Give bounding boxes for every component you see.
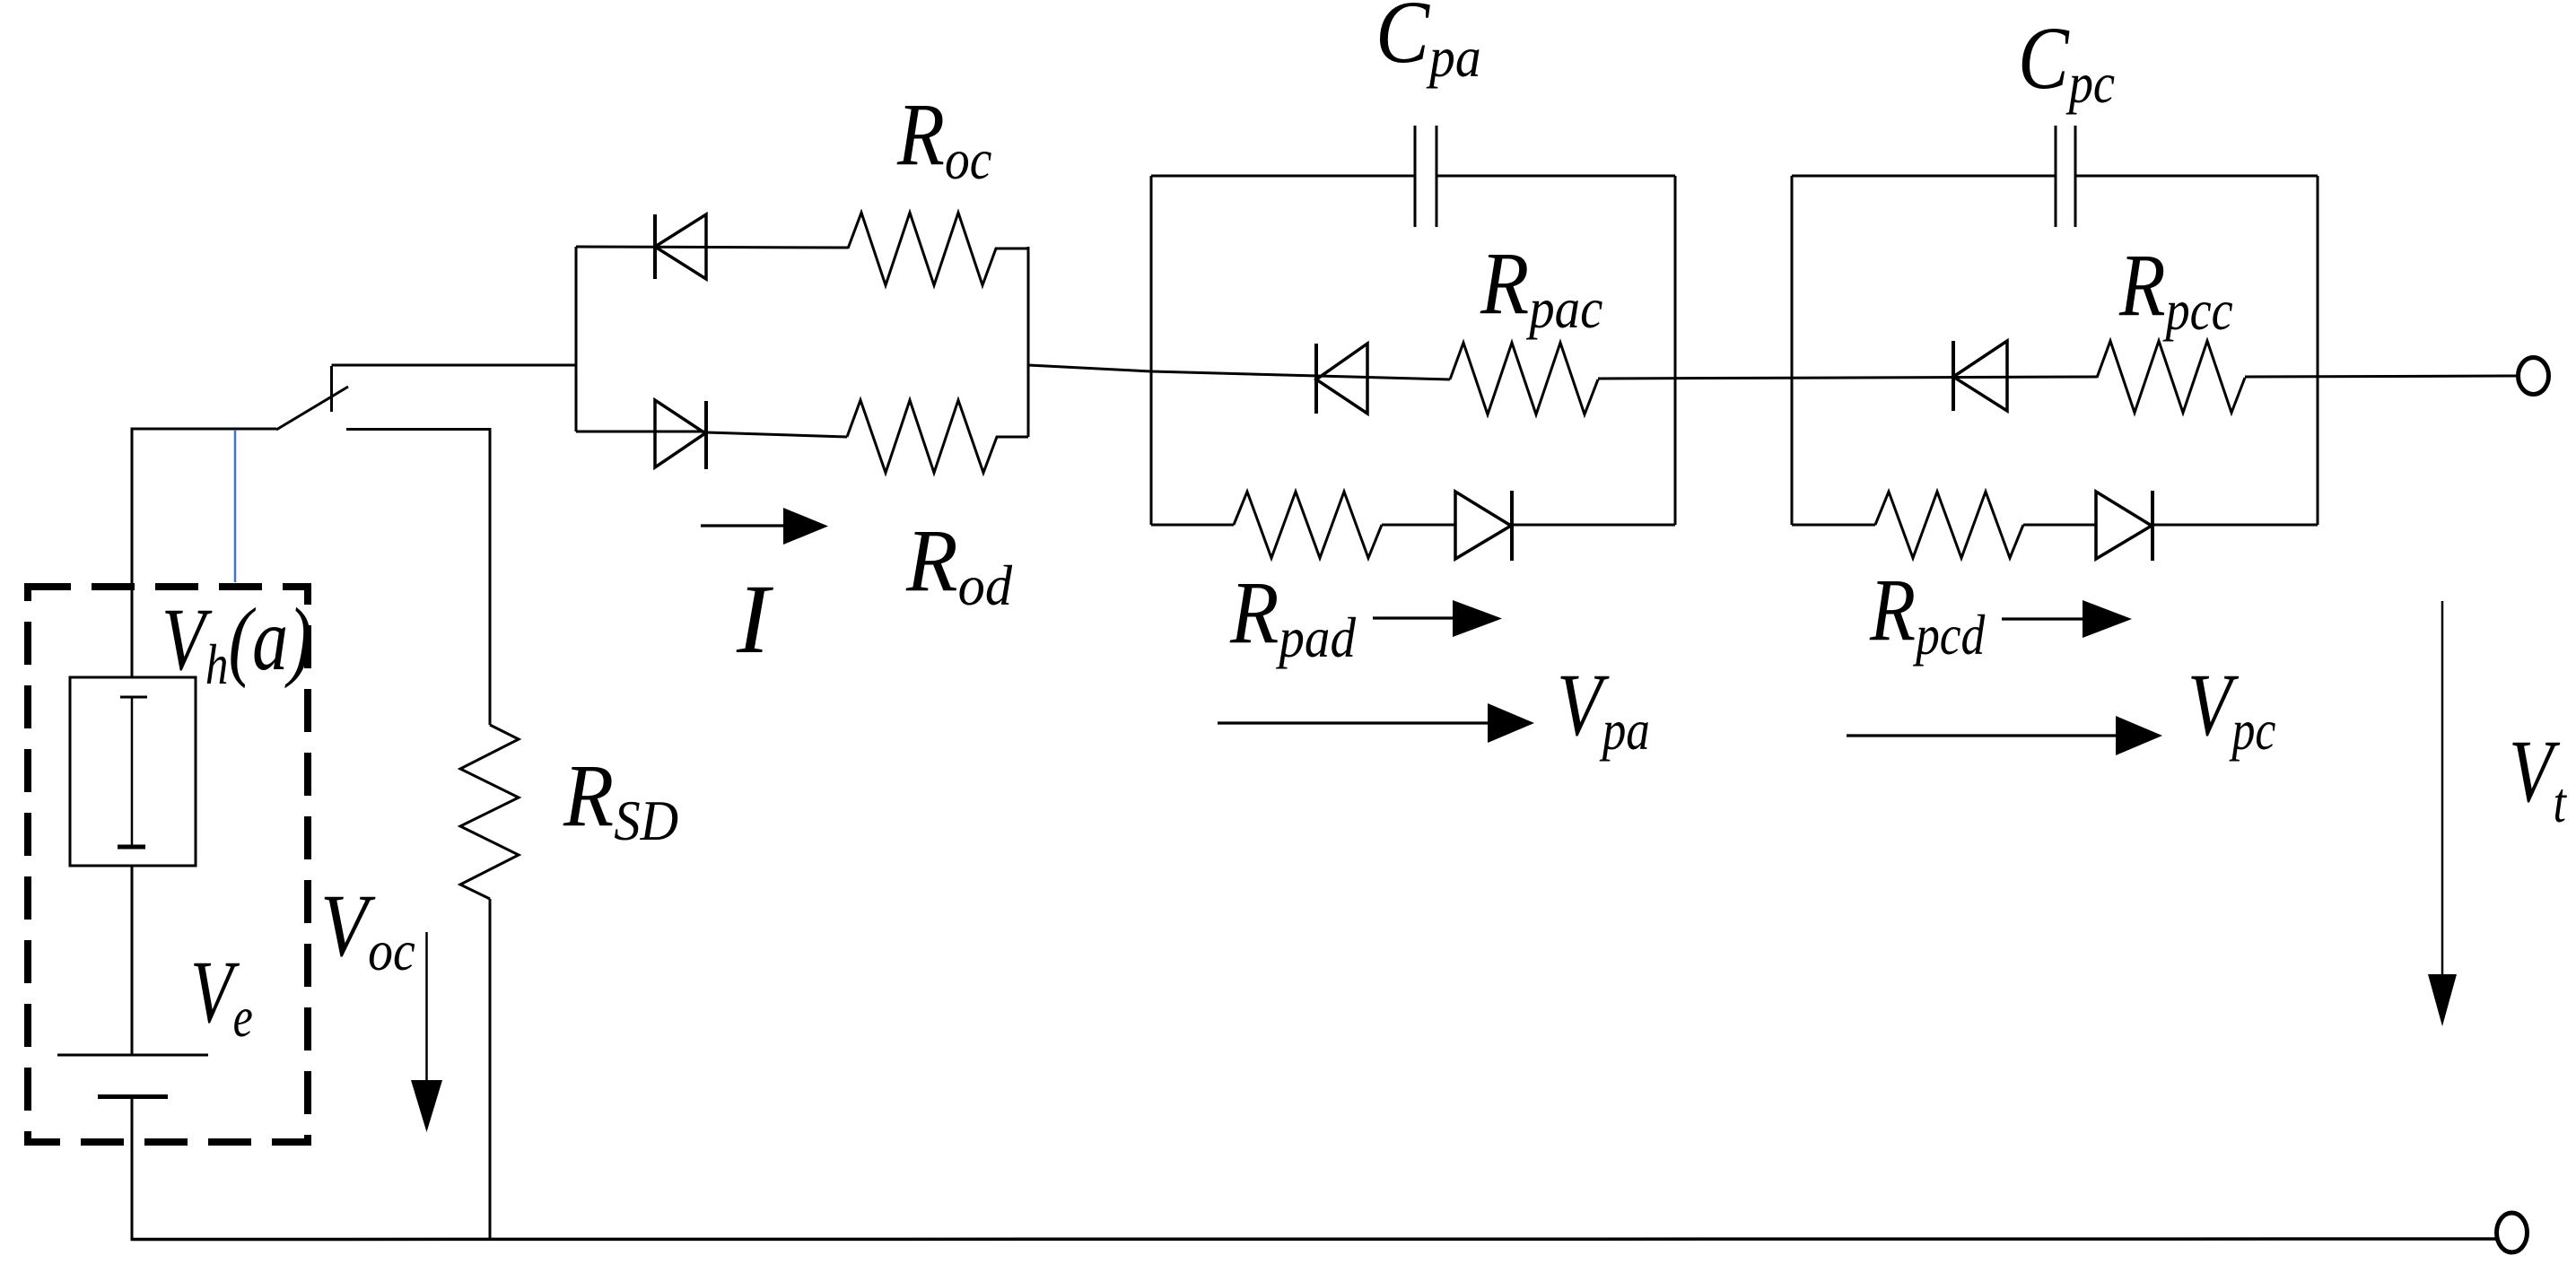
arrow V_oc (411, 932, 442, 1132)
resistor R_pcc (2097, 341, 2245, 413)
resistor R_od (847, 400, 1028, 473)
resistor R_SD (460, 725, 519, 899)
Cpc box edges (1792, 176, 2318, 525)
wire switch to RSD (346, 430, 490, 726)
wire Cpc to terminal (2245, 376, 2518, 377)
wire Rod diode to resistor (706, 432, 847, 437)
wire battery inner upper (131, 866, 134, 1055)
arrow V_pc (1847, 716, 2162, 755)
wire between boxes (1598, 377, 2097, 379)
terminal bottom right (2497, 1213, 2528, 1252)
arrow I (701, 508, 828, 545)
capacitor C_pa plates (1415, 126, 1436, 227)
arrow V_pa (1218, 703, 1534, 743)
svg-text:Vh(a): Vh(a) (162, 589, 312, 697)
dashed battery box (28, 587, 308, 1142)
node Roc box right edge (1027, 247, 1030, 437)
wire Roc branch left (576, 247, 848, 248)
diode D6 (Rpcd branch) (2096, 491, 2152, 561)
arrow V_t (2428, 601, 2457, 1026)
battery Ve short plate (98, 1094, 168, 1099)
wire Cpa bottom right (1512, 524, 1675, 527)
terminal top right (2519, 358, 2549, 395)
diode D2 (Rod branch) (655, 400, 706, 469)
wire RSD to bottom (489, 899, 492, 1241)
capacitor C_pc plates (2056, 126, 2075, 227)
switch S1 lever (276, 387, 348, 430)
wire battery top (132, 429, 276, 677)
arrow Rpcd (2002, 600, 2132, 638)
hysteresis source U1 box (70, 677, 196, 866)
node Roc box left edge (575, 247, 578, 432)
diode D3 (Rpac branch) (1316, 344, 1367, 414)
diode D5 (Rpcc branch) (1953, 341, 2007, 411)
svg-text:I: I (736, 564, 773, 674)
diode D1 (Roc branch) (655, 214, 706, 279)
wire battery bottom (131, 1096, 134, 1241)
battery Ve long plate (57, 1054, 208, 1057)
hysteresis source symbol (118, 697, 147, 847)
switch S1 contact stub (330, 366, 333, 412)
Cpa bottom branch resistor R_pad (1151, 492, 1455, 558)
diode D4 (Rpad branch) (1455, 491, 1512, 561)
wire main net middle (1028, 365, 1450, 379)
wire Cpc bottom right (2152, 524, 2318, 527)
Cpa box edges (1151, 176, 1675, 525)
resistor R_oc (848, 213, 1028, 285)
wire switch to Roc box (332, 364, 577, 367)
wire Rod branch left (576, 431, 706, 433)
node blue tap (234, 430, 237, 582)
wire bottom rail (131, 1237, 2497, 1241)
arrow Rpad (1373, 600, 1502, 637)
Cpc bottom branch resistor R_pcd (1792, 492, 2096, 558)
resistor R_pac (1450, 343, 1598, 414)
